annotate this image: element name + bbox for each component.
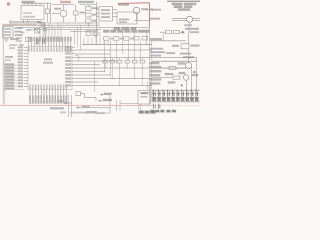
- wire: [135, 20, 150, 22]
- transistor Q4: [186, 63, 192, 69]
- labels row B: [110, 38, 113, 40]
- resistor R20: [76, 92, 96, 101]
- connector J1: [21, 1, 44, 23]
- net label: [150, 38, 162, 40]
- resistor R15: [169, 67, 176, 70]
- resistor row A labels: [104, 30, 150, 32]
- net arrow: [76, 105, 110, 108]
- IC1 inner pin names top: [28, 48, 71, 52]
- node labels: [15, 27, 23, 29]
- label row under relay: [114, 27, 136, 29]
- wire: [10, 21, 40, 23]
- top-right border wire: [167, 0, 200, 2]
- transistor Q5: [183, 75, 189, 81]
- wire: [4, 60, 6, 105]
- IC1 right pins: [72, 48, 75, 86]
- diode D7: [194, 71, 197, 74]
- row2 caption: [151, 110, 176, 112]
- IC1 bottom pin labels: [30, 96, 68, 102]
- net arrow: [84, 111, 110, 113]
- vertical drops to IC top pins: [40, 23, 61, 42]
- wire: [87, 5, 89, 7]
- resistor R4: [19, 38, 31, 46]
- cap array row2: [154, 104, 160, 109]
- cap array wing ticks: [152, 93, 198, 95]
- IC1 left pins: [24, 48, 28, 87]
- transistor Q2: [118, 4, 148, 21]
- IC1 inner pin names bottom: [30, 85, 67, 89]
- wire: [163, 34, 165, 41]
- row C feeder ticks: [105, 58, 142, 61]
- net label: [150, 18, 160, 20]
- diode D5: [182, 31, 185, 34]
- IC1 bottom pins: [30, 90, 66, 96]
- resistor R3: [86, 7, 99, 11]
- bottom middle verticals: [67, 95, 69, 117]
- bus horizontals: [75, 45, 197, 65]
- cap array text row: [153, 97, 199, 101]
- net labels right-middle: [150, 62, 198, 84]
- pink separator line: [0, 105, 153, 107]
- diode D8: [181, 84, 183, 87]
- red guide line: [2, 23, 37, 25]
- wire: [87, 23, 89, 27]
- capacitor C1: [37, 21, 44, 27]
- net label: [150, 9, 161, 11]
- IC1 left pin labels: [18, 47, 23, 87]
- bus comb upper: [84, 32, 108, 45]
- wire: [149, 26, 151, 105]
- wire: [160, 31, 166, 33]
- diode D1: [44, 24, 47, 38]
- wires right cluster: [152, 67, 169, 69]
- left vertical of array: [151, 90, 153, 102]
- wire hook: [145, 8, 153, 12]
- junction pair: [147, 82, 149, 90]
- capacitor C10: [172, 44, 200, 63]
- cap array columns: [154, 90, 198, 97]
- vertical drops from resistor rows: [105, 32, 147, 86]
- capacitor C4: [36, 39, 38, 45]
- resistor row B: [104, 37, 148, 41]
- cap array top rail: [152, 89, 200, 91]
- resistor R8: [86, 29, 92, 35]
- capacitor C3: [86, 19, 98, 23]
- caption text dark: [139, 111, 155, 114]
- wire: [50, 3, 52, 22]
- net arrow: [57, 100, 72, 104]
- caption text: [50, 107, 64, 109]
- wire: [9, 20, 11, 24]
- IC1 microcontroller: [28, 47, 72, 90]
- IC3: [138, 91, 151, 111]
- capacitor C5: [42, 39, 44, 45]
- wire: [150, 40, 186, 42]
- wire: [188, 33, 190, 45]
- IC1 top pins: [29, 42, 71, 47]
- IC1 top pin labels: [28, 37, 71, 41]
- verticals near IC3: [116, 100, 118, 111]
- connector P1: [3, 27, 14, 38]
- resistor R10: [166, 31, 172, 34]
- net labels: [16, 37, 22, 39]
- net labels: [150, 48, 163, 50]
- wire: [120, 103, 138, 105]
- label: [185, 28, 199, 30]
- transistor Q3: [184, 16, 193, 33]
- relay K1: [117, 12, 137, 24]
- crystal X1: [45, 3, 49, 22]
- wire pair: [172, 17, 200, 19]
- resistor R11: [174, 31, 180, 34]
- junction dots: [104, 68, 143, 87]
- wire elbow: [75, 56, 79, 61]
- capacitor C2: [86, 13, 98, 17]
- IC2 U2: [96, 7, 117, 22]
- red line: [118, 3, 150, 26]
- small box row C: [103, 60, 144, 63]
- net label: [5, 56, 13, 58]
- fan verticals right of IC: [75, 25, 81, 50]
- wire: [24, 2, 51, 4]
- transistor Q1: [52, 5, 67, 23]
- label: [78, 1, 94, 3]
- cap array junction dots: [153, 90, 196, 91]
- switch S1: [21, 29, 40, 34]
- net arrow: [100, 93, 112, 96]
- wire: [95, 2, 97, 45]
- wire: [52, 4, 74, 6]
- left net wires and labels: [4, 66, 24, 90]
- IC1 right pin labels: [66, 47, 72, 86]
- resistor R9: [93, 29, 99, 35]
- red label: [7, 2, 10, 5]
- wire: [80, 4, 96, 6]
- wire: [2, 25, 4, 105]
- wire elbow: [70, 32, 95, 38]
- resistor R2: [74, 5, 86, 22]
- battery B1: [4, 38, 19, 41]
- bus wires left: [10, 22, 100, 24]
- wire: [151, 40, 153, 90]
- resistor R16: [173, 76, 180, 79]
- cap array bottom rail: [152, 101, 200, 103]
- wire: [93, 61, 95, 92]
- text block: [172, 3, 196, 11]
- label red: [60, 1, 71, 3]
- net arrow: [98, 99, 112, 102]
